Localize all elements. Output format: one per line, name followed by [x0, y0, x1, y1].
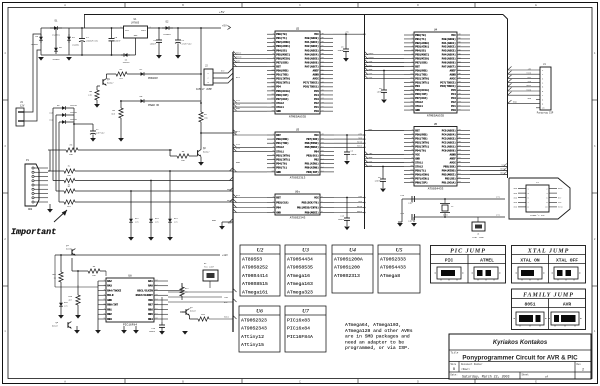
svg-text:PD5(T1): PD5(T1): [415, 168, 426, 172]
svg-text:PB1(T1): PB1(T1): [415, 37, 426, 41]
svg-text:PA3(ADC3): PA3(ADC3): [442, 49, 456, 53]
svg-text:of: of: [545, 375, 549, 379]
resistor R6 10K: [169, 150, 171, 156]
svg-text:9: 9: [528, 206, 529, 209]
bus loop around ATMEL ISP: [509, 178, 570, 219]
svg-text:PC2: PC2: [451, 101, 456, 104]
svg-text:U4: U4: [349, 247, 356, 253]
ground stub left: [74, 330, 80, 334]
wire row SCK y=180.5: [53, 180, 64, 182]
svg-text:PC1(ADC1): PC1(ADC1): [442, 144, 456, 148]
table U3 device list: [285, 245, 326, 296]
svg-text:RB0/INT: RB0/INT: [107, 303, 118, 307]
svg-text:PD5(OC1A): PD5(OC1A): [276, 89, 290, 93]
jumper J5 XTAL JUMP: [477, 217, 479, 222]
svg-text:PA4(ADC4): PA4(ADC4): [305, 52, 319, 56]
svg-text:PB2(AIN0): PB2(AIN0): [415, 41, 429, 45]
diode stack D9 1N4148: [53, 107, 60, 109]
svg-text:100nF: 100nF: [351, 153, 358, 156]
diode stack D11 1N4148: [59, 121, 60, 123]
resistor RH1 1K vertical: [60, 255, 62, 272]
svg-text:U3: U3: [302, 247, 309, 253]
svg-text:PD0(RXD): PD0(RXD): [415, 132, 428, 136]
svg-text:GND: GND: [276, 211, 281, 214]
svg-text:100nF: 100nF: [374, 179, 381, 182]
wire XT1 row: [402, 198, 505, 200]
svg-text:7: 7: [528, 201, 529, 204]
svg-text:BC547: BC547: [190, 310, 197, 313]
wire diode stack output: [73, 108, 75, 150]
svg-text:XTAL2: XTAL2: [276, 102, 284, 105]
svg-text:XT1: XT1: [496, 196, 501, 199]
connector J4 ATMEL ISP: [514, 181, 564, 217]
svg-text:PA5(ADC5): PA5(ADC5): [305, 56, 319, 60]
svg-text:PD3(INT1): PD3(INT1): [276, 81, 290, 85]
wire C7 top connection: [74, 123, 93, 125]
svg-text:PA6(ADC6): PA6(ADC6): [442, 61, 456, 65]
wire C19 to VDD row: [161, 297, 163, 322]
svg-text:PD7(AIN1): PD7(AIN1): [415, 176, 429, 180]
svg-text:1uF/16V: 1uF/16V: [96, 132, 105, 135]
svg-text:PB3(CLK): PB3(CLK): [276, 200, 289, 204]
svg-text:<Doc>: <Doc>: [461, 367, 470, 371]
resistor R7 4K7: [64, 189, 75, 193]
svg-text:PB3(AIN1): PB3(AIN1): [276, 44, 290, 48]
svg-text:RA0: RA0: [148, 285, 153, 288]
svg-text:PROGRAM: PROGRAM: [148, 77, 158, 80]
wire U1 ground pin to rail: [135, 38, 137, 55]
svg-text:P1: P1: [26, 159, 30, 162]
wires bus x=364 to U5 left pins: [364, 130, 404, 132]
LED D15 2V1: [60, 300, 62, 309]
svg-text:PIC16x84: PIC16x84: [287, 326, 310, 332]
resistor R16 10K: [189, 318, 198, 320]
wire row MISO y=202: [59, 201, 64, 203]
svg-text:ATmega8: ATmega8: [380, 273, 400, 279]
svg-text:RB5: RB5: [148, 313, 153, 316]
svg-text:1000uF/25V: 1000uF/25V: [86, 40, 99, 43]
capacitor C5 100nF: [345, 34, 347, 49]
wire bus corner to Ponyprog: [503, 15, 508, 179]
svg-text:PA0(ADC0): PA0(ADC0): [305, 36, 319, 40]
svg-text:PD2(INT0): PD2(INT0): [415, 76, 429, 80]
svg-text:1N4001: 1N4001: [72, 44, 80, 47]
svg-text:PIC16F84A: PIC16F84A: [287, 334, 313, 340]
svg-text:ATmega323: ATmega323: [287, 289, 313, 295]
capacitor C8 100nF: [346, 135, 348, 152]
capacitor C6 10nF: [383, 71, 385, 90]
svg-text:PB1(T1): PB1(T1): [276, 36, 287, 40]
svg-text:PB4(SS): PB4(SS): [276, 48, 287, 52]
svg-text:Document Number: Document Number: [461, 363, 483, 366]
svg-text:PA7(ADC7): PA7(ADC7): [305, 64, 319, 68]
svg-text:PB0(AIN0): PB0(AIN0): [305, 166, 319, 170]
svg-text:programmed, or via ISP.: programmed, or via ISP.: [345, 345, 410, 351]
wire bridge right vertical: [68, 28, 70, 55]
svg-text:MISO: MISO: [500, 168, 506, 171]
svg-text:AVR: AVR: [563, 302, 572, 308]
resistor R1 2K2: [116, 72, 127, 76]
wire row RST y=171: [48, 170, 64, 172]
svg-text:PB6(MISO): PB6(MISO): [276, 56, 290, 60]
svg-text:PD6(AIN0): PD6(AIN0): [415, 172, 429, 176]
svg-text:GND: GND: [236, 107, 241, 110]
svg-text:PA5(ADC5): PA5(ADC5): [442, 57, 456, 61]
svg-text:PC1: PC1: [451, 105, 456, 108]
svg-text:C: C: [299, 380, 301, 383]
svg-text:RST: RST: [236, 76, 241, 79]
svg-text:AT90S4434: AT90S4434: [287, 257, 313, 263]
svg-text:POWER ON: POWER ON: [148, 104, 160, 107]
capacitor C2 47uF/16V: [177, 28, 179, 40]
svg-text:RA4/T0CKI: RA4/T0CKI: [107, 288, 121, 292]
transistor Q5 BC547: [67, 322, 69, 328]
svg-text:U5: U5: [396, 247, 403, 253]
svg-text:PC5: PC5: [314, 90, 319, 93]
resistor R11 4K7: [64, 200, 75, 204]
svg-text:PD7(OC2): PD7(OC2): [276, 97, 289, 101]
resistor R5 10K: [66, 148, 78, 152]
svg-text:22K: 22K: [88, 94, 93, 97]
svg-text:SCK: SCK: [236, 60, 241, 63]
table U2 device list: [240, 245, 280, 296]
wires PIC left pins bundle: [54, 255, 56, 287]
svg-text:PB4(SS): PB4(SS): [415, 49, 426, 53]
svg-text:100nF: 100nF: [338, 218, 345, 221]
svg-text:AREF: AREF: [313, 70, 320, 73]
svg-text:RB1: RB1: [107, 308, 112, 311]
wire bridge bottom rail: [41, 54, 136, 56]
svg-text:Saturday, March 22, 2003: Saturday, March 22, 2003: [462, 375, 510, 379]
zener D14 2V1: [169, 171, 171, 216]
svg-text:PD2(INT0): PD2(INT0): [276, 77, 290, 81]
svg-text:PC6(TOSC1): PC6(TOSC1): [440, 84, 456, 88]
svg-text:MISO: MISO: [357, 205, 363, 208]
svg-text:PB0(T0): PB0(T0): [276, 32, 287, 36]
svg-text:XTAL1: XTAL1: [415, 161, 423, 164]
wires bus to U5 left pins: [365, 130, 405, 132]
svg-text:PIC: PIC: [445, 258, 454, 264]
svg-text:OSC1/CLKIN: OSC1/CLKIN: [137, 288, 153, 292]
wire Q2 collector: [200, 122, 202, 150]
svg-text:U7: U7: [302, 308, 309, 314]
svg-text:PA4(ADC4): PA4(ADC4): [442, 53, 456, 57]
svg-text:PD1(TXD): PD1(TXD): [276, 141, 289, 145]
svg-text:RST: RST: [236, 130, 241, 133]
capacitor C9 100nF: [382, 167, 384, 180]
bus rip diagonals on left bus: [230, 51, 237, 319]
svg-text:PIC16x83: PIC16x83: [287, 318, 310, 324]
crystal Y1 8MHz: [444, 199, 446, 203]
wire row MOSI y=191: [56, 190, 64, 192]
wire PIC VDD to +5V: [168, 296, 222, 298]
ground below bridge right: [66, 57, 72, 61]
diode D8 1N4148 on ground rail: [121, 54, 130, 56]
ground at DB9 shield: [49, 204, 51, 209]
svg-text:XTAL1: XTAL1: [415, 105, 423, 108]
svg-text:AT90S2323: AT90S2323: [241, 318, 267, 324]
wire R12 to PIC OSC1: [168, 290, 182, 292]
svg-text:AT90S4414: AT90S4414: [242, 273, 268, 279]
svg-text:Ponyprog ISP: Ponyprog ISP: [537, 112, 554, 115]
wires bus to U2 MOSI MISO SCK RST pins: [233, 53, 267, 55]
svg-text:AVCC: AVCC: [450, 77, 457, 80]
svg-text:PC7(TOSC2): PC7(TOSC2): [303, 81, 319, 85]
svg-text:PC3: PC3: [314, 98, 319, 101]
zener D13 2V1: [150, 181, 152, 217]
svg-text:PB6(MISO): PB6(MISO): [415, 57, 429, 61]
svg-text:U5: U5: [434, 123, 438, 126]
svg-text:VCC: VCC: [314, 134, 319, 137]
svg-text:PC5(ADC5): PC5(ADC5): [442, 128, 456, 132]
svg-text:AREF: AREF: [450, 157, 457, 160]
wire bridge left vertical: [40, 28, 42, 55]
svg-text:MOSI: MOSI: [500, 172, 505, 175]
table XTAL JUMP: [512, 246, 586, 284]
svg-text:AT90S4433: AT90S4433: [428, 187, 444, 190]
svg-text:MOSI: MOSI: [224, 316, 229, 319]
arrow for Important: [54, 210, 67, 222]
IC U4 ATMEGA8535: [404, 29, 470, 118]
svg-text:AT90S4433: AT90S4433: [380, 265, 406, 271]
diode D7 LED PROGRAM: [127, 73, 138, 75]
svg-text:PB7(SCK): PB7(SCK): [276, 60, 289, 64]
svg-text:PC0: PC0: [314, 110, 319, 113]
wire AC rail top: [41, 27, 124, 29]
diode D2 1N4001: [162, 27, 173, 29]
svg-text:PD5(T1): PD5(T1): [276, 166, 287, 170]
svg-text:PB5(MOSI): PB5(MOSI): [276, 52, 290, 56]
svg-text:MOSI: MOSI: [526, 84, 531, 87]
svg-text:RB4: RB4: [148, 318, 153, 321]
svg-text:PC5: PC5: [451, 89, 456, 92]
svg-text:XT2: XT2: [236, 99, 241, 102]
svg-text:GND: GND: [276, 171, 281, 174]
svg-text:PC4(ADC4): PC4(ADC4): [442, 132, 456, 136]
svg-text:PB4: PB4: [314, 150, 319, 153]
wire VCC U2 to bus: [333, 33, 365, 35]
svg-text:PD0(RXD): PD0(RXD): [276, 137, 289, 141]
svg-text:MISO: MISO: [357, 141, 363, 144]
svg-text:8051: 8051: [524, 302, 535, 308]
svg-text:U6: U6: [256, 308, 263, 314]
svg-text:PA6(ADC6): PA6(ADC6): [305, 60, 319, 64]
wires bus to U3 left pins: [233, 134, 267, 136]
svg-text:AT89S53: AT89S53: [242, 257, 262, 263]
svg-text:PB0(T0): PB0(T0): [415, 33, 426, 37]
svg-text:Rev: Rev: [577, 363, 582, 366]
transistor Q3 BC557: [71, 249, 73, 255]
svg-text:RST: RST: [236, 194, 241, 197]
svg-text:PB5(SCK): PB5(SCK): [443, 164, 456, 168]
resistor R9 10K vertical: [199, 112, 203, 122]
svg-text:AVCC: AVCC: [450, 161, 457, 164]
ground under PIC pins: [123, 326, 125, 330]
svg-text:PB5(MOSI): PB5(MOSI): [415, 53, 429, 57]
svg-text:100nF: 100nF: [149, 330, 156, 333]
svg-text:VOUT: VOUT: [141, 29, 147, 32]
svg-text:MOSI: MOSI: [236, 52, 242, 55]
svg-text:ATmega16: ATmega16: [287, 273, 310, 279]
svg-text:PD5(OC1A): PD5(OC1A): [415, 88, 429, 92]
diode D3 1N4001: [40, 34, 42, 43]
svg-text:OSC2/CLKOUT: OSC2/CLKOUT: [136, 293, 154, 297]
diode D8 LED POWER ON: [120, 100, 138, 102]
svg-text:RST: RST: [276, 196, 281, 199]
svg-text:PD6(ICP): PD6(ICP): [415, 92, 428, 96]
svg-text:PD7(OC2): PD7(OC2): [415, 96, 428, 100]
svg-text:PB7(SCK): PB7(SCK): [415, 61, 428, 65]
capacitor C18 22pF: [411, 214, 413, 220]
svg-text:U3: U3: [296, 129, 300, 132]
svg-text:PB2(SS): PB2(SS): [445, 176, 456, 180]
table U5 device list: [378, 245, 420, 293]
svg-text:PD2(INT0): PD2(INT0): [415, 140, 429, 144]
svg-text:RB3: RB3: [107, 318, 112, 321]
svg-text:ATMEL: ATMEL: [480, 258, 494, 264]
svg-text:need an adapter to be: need an adapter to be: [345, 339, 404, 345]
svg-text:LM7805: LM7805: [131, 22, 140, 25]
svg-text:XTAL ON: XTAL ON: [520, 258, 540, 264]
svg-text:VDD: VDD: [148, 299, 153, 302]
regulator U1 LM7805: [124, 26, 148, 38]
svg-text:AGND: AGND: [450, 153, 457, 156]
diode D1 1N4001: [50, 27, 62, 29]
svg-text:PA0(ADC0): PA0(ADC0): [442, 37, 456, 41]
svg-text:AT90S2333: AT90S2333: [380, 257, 406, 263]
svg-text:AREF: AREF: [450, 69, 457, 72]
diode D5 1N4001: [55, 45, 57, 54]
svg-text:PA1(ADC1): PA1(ADC1): [305, 40, 319, 44]
svg-text:PC0(ADC0): PC0(ADC0): [442, 148, 456, 152]
resistor R8 10K: [71, 258, 73, 271]
svg-text:1N4148: 1N4148: [123, 61, 131, 64]
svg-text:PC6(TOSC1): PC6(TOSC1): [303, 85, 319, 89]
svg-text:PIC16F84: PIC16F84: [123, 323, 137, 326]
note text about SMD packages: [345, 322, 413, 351]
svg-text:ATmega128 and other AVRs: ATmega128 and other AVRs: [345, 328, 413, 334]
svg-text:+5V: +5V: [224, 296, 229, 299]
svg-text:XT2: XT2: [236, 143, 241, 146]
svg-text:AT90S1200: AT90S1200: [334, 265, 360, 271]
svg-text:PB2(AIN0): PB2(AIN0): [276, 40, 290, 44]
zener D12 2V1: [130, 191, 132, 216]
svg-text:AT90S8535: AT90S8535: [287, 265, 313, 271]
svg-text:RST: RST: [276, 134, 281, 137]
svg-text:ATmega64, ATmega103,: ATmega64, ATmega103,: [345, 322, 401, 328]
svg-text:XTAL OFF: XTAL OFF: [556, 258, 578, 264]
svg-text:FAMILY JUMP: FAMILY JUMP: [523, 293, 574, 299]
IC U5 AT90S4433: [404, 123, 470, 190]
svg-text:PB5(MOSI): PB5(MOSI): [305, 145, 319, 149]
svg-text:PB7(SCK): PB7(SCK): [306, 137, 319, 141]
svg-text:Ponyprogrammer Circuit for AVR: Ponyprogrammer Circuit for AVR & PIC: [462, 355, 578, 362]
wire rows PIC right to bus: [168, 291, 233, 293]
svg-text:1N4148: 1N4148: [70, 104, 78, 107]
svg-text:ATmega161: ATmega161: [242, 289, 268, 295]
diode D4 1N4001: [68, 34, 70, 43]
wires bus x=364 to U4 left pins: [364, 54, 404, 56]
capacitor C19 100nF: [161, 322, 163, 325]
svg-text:BC547: BC547: [52, 325, 59, 328]
svg-text:PD4(T0): PD4(T0): [415, 148, 426, 152]
svg-text:XT2: XT2: [496, 214, 501, 217]
svg-text:U2: U2: [296, 28, 300, 31]
svg-text:PB2(SCK/T0): PB2(SCK/T0): [302, 200, 320, 204]
svg-text:XTAL2: XTAL2: [415, 165, 423, 168]
wire +5V top rail: [84, 14, 503, 16]
svg-text:Size: Size: [451, 363, 457, 366]
title block: [449, 334, 591, 379]
svg-text:PA2(ADC2): PA2(ADC2): [305, 44, 319, 48]
svg-text:XTAL2: XTAL2: [276, 146, 284, 149]
svg-text:MOSI: MOSI: [357, 210, 363, 213]
svg-text:PD3(INT1): PD3(INT1): [276, 157, 290, 161]
svg-text:+5V: +5V: [222, 25, 227, 28]
capacitor C1 1000uF/25V: [81, 28, 83, 39]
ground below Q2: [200, 157, 202, 162]
IC U6s AT90S2343: [267, 191, 334, 220]
wire +5V vertical feed x=201: [200, 28, 202, 103]
svg-text:VCC: VCC: [314, 196, 319, 199]
svg-text:ATmega163: ATmega163: [287, 281, 313, 287]
svg-text:VCC: VCC: [415, 153, 420, 156]
wires bus to U4 left pins with net labels: [365, 54, 405, 56]
svg-text:1N4001: 1N4001: [163, 33, 171, 36]
svg-text:PB2: PB2: [314, 158, 319, 161]
svg-text:AGND: AGND: [313, 74, 320, 77]
connector J1 Ponyprog ISP: [508, 63, 554, 115]
svg-text:PB3(MOSI): PB3(MOSI): [442, 172, 456, 176]
transistor Q2 BC547: [197, 150, 199, 156]
svg-text:XTAL2: XTAL2: [415, 101, 423, 104]
svg-text:Title: Title: [451, 351, 459, 355]
capacitor C4 100nF: [158, 28, 160, 40]
wires bus to small AVR pins: [233, 197, 267, 199]
wire main row y=150 to Q2 base: [48, 149, 66, 151]
svg-text:PB0(ICP): PB0(ICP): [415, 180, 428, 184]
svg-text:D: D: [417, 380, 419, 383]
svg-text:AT90S2313: AT90S2313: [290, 176, 306, 179]
svg-text:PB0(MOSI): PB0(MOSI): [305, 210, 319, 214]
svg-text:ATtiny15: ATtiny15: [241, 342, 264, 348]
svg-text:PB3(AIN1): PB3(AIN1): [415, 45, 429, 49]
bus vertical left x=233: [232, 52, 234, 332]
svg-text:RST: RST: [415, 129, 420, 132]
resistor R3 4K7: [64, 178, 75, 182]
ground under Q4: [182, 311, 186, 313]
ground GND stub near bus: [222, 221, 233, 223]
svg-text:PD6(ICP): PD6(ICP): [276, 93, 289, 97]
svg-text:BC547: BC547: [107, 82, 114, 85]
svg-text:Kyriakos Kontakos: Kyriakos Kontakos: [493, 340, 548, 346]
resistor R10 4K7 vertical: [77, 285, 79, 295]
wires U6s right pins to bus: [334, 197, 365, 199]
svg-text:+5V: +5V: [219, 11, 225, 14]
svg-text:PB4(MISO): PB4(MISO): [442, 168, 456, 172]
svg-text:PD3(INT1): PD3(INT1): [415, 80, 429, 84]
svg-text:RA2: RA2: [107, 280, 112, 283]
svg-text:2: 2: [546, 187, 547, 190]
svg-text:PD0(RXD): PD0(RXD): [276, 69, 289, 73]
svg-text:FAMILY JUMP: FAMILY JUMP: [196, 88, 212, 91]
wire Q2 collector to bus RST: [201, 132, 233, 134]
wire riser to diode stack: [52, 108, 54, 172]
svg-text:are in SMD packages and: are in SMD packages and: [345, 334, 410, 340]
svg-text:PB1(AIN1): PB1(AIN1): [305, 162, 319, 166]
svg-text:PC2: PC2: [314, 102, 319, 105]
svg-text:GND: GND: [415, 109, 420, 112]
